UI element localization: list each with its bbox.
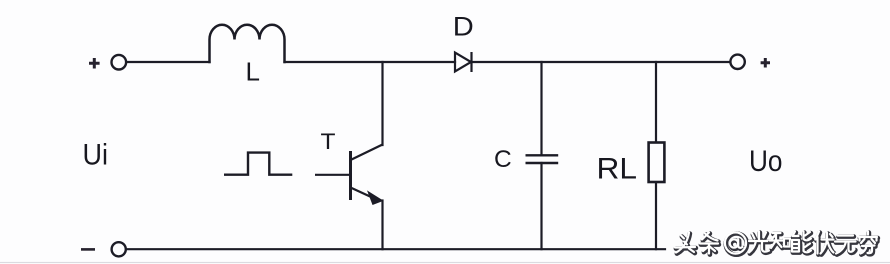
wire: capacitor top vertical: [540, 62, 542, 155]
inductor L: [210, 25, 285, 62]
watermark char fu: [816, 232, 835, 255]
minus sign left: [81, 248, 95, 251]
watermark char wu: [835, 236, 856, 255]
watermark char neng: [792, 232, 812, 254]
diode D: [455, 52, 472, 72]
wire bottom: minus terminal to right end: [126, 248, 665, 250]
wire: diode cathode to output terminal: [472, 61, 731, 63]
terminal circle top-right: [730, 55, 744, 69]
capacitor C plates: [526, 155, 559, 163]
svg-text:Ui: Ui: [83, 139, 109, 172]
svg-text:T: T: [321, 129, 336, 154]
watermark char tou: [675, 233, 696, 254]
emitter: [351, 188, 377, 200]
svg-text:RL: RL: [597, 153, 638, 186]
transistor T: [315, 145, 383, 205]
svg-text:Uo: Uo: [749, 145, 783, 178]
watermark char guang: [749, 232, 770, 254]
wire: emitter vertical down to bottom wire: [381, 201, 383, 250]
watermark char qiong: [859, 232, 878, 255]
wire: collector node vertical (top wire down to transistor): [381, 62, 383, 145]
svg-text:D: D: [453, 11, 474, 41]
pulse waveform symbol: [224, 153, 292, 175]
plus sign left: [89, 58, 100, 69]
resistor RL box: [649, 143, 665, 183]
base bar: [349, 151, 352, 200]
wire: resistor top vertical: [655, 62, 657, 143]
wire: capacitor bottom vertical: [540, 163, 542, 249]
wire top-left: input terminal to inductor: [127, 61, 210, 63]
faint bottom edge line: [0, 262, 890, 263]
wire: inductor to diode: [285, 61, 456, 63]
svg-text:C: C: [494, 146, 512, 173]
terminal circle bottom-left: [112, 242, 126, 256]
watermark char zhi: [770, 233, 791, 249]
terminal circle top-left: [112, 55, 127, 70]
base lead: [315, 174, 351, 176]
watermark char tiao: [700, 233, 719, 255]
svg-text:L: L: [246, 57, 260, 87]
wire: resistor bottom vertical: [655, 182, 657, 249]
watermark char at-sign: [725, 232, 747, 254]
collector: [351, 145, 383, 161]
emitter arrowhead: [368, 192, 383, 205]
plus sign right: [761, 58, 770, 68]
